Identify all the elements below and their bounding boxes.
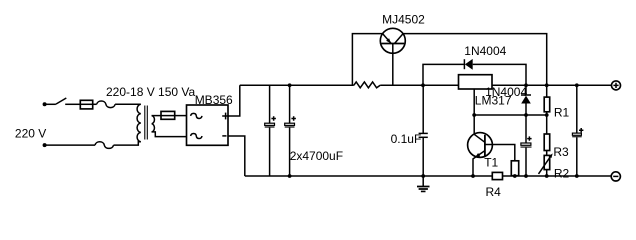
- svg-text:2x4700uF: 2x4700uF: [290, 149, 343, 163]
- svg-text:R4: R4: [486, 185, 502, 199]
- svg-text:MJ4502: MJ4502: [382, 12, 425, 26]
- svg-text:220 V: 220 V: [15, 127, 46, 141]
- svg-text:R3: R3: [553, 145, 569, 159]
- svg-text:T1: T1: [484, 156, 498, 170]
- svg-text:LM317: LM317: [475, 94, 512, 108]
- svg-text:R1: R1: [554, 105, 570, 119]
- svg-text:MB356: MB356: [195, 93, 233, 107]
- svg-text:R2: R2: [554, 167, 570, 181]
- svg-text:220-18 V 150 Va: 220-18 V 150 Va: [106, 85, 196, 99]
- svg-text:1N4004: 1N4004: [464, 44, 506, 58]
- svg-text:0.1uF: 0.1uF: [391, 132, 422, 146]
